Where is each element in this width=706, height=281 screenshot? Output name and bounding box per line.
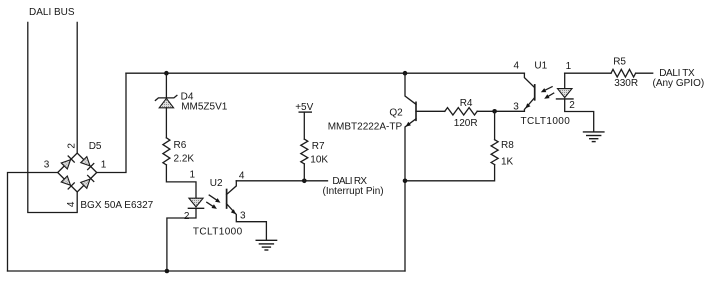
- wire: Q2 base to R4: [416, 110, 445, 112]
- wire: R6 to U2 LED anode: [166, 165, 196, 198]
- wire: bridge pin 1 up to top rail: [97, 73, 126, 172]
- resistor R8: [405, 111, 498, 181]
- resistor R7: [301, 139, 308, 164]
- junction dot R7 / DALI RX: [302, 179, 307, 184]
- wire: U1 pin 1 to R5: [565, 72, 611, 74]
- svg-text:Q2: Q2: [389, 108, 403, 119]
- svg-text:+5V: +5V: [295, 102, 313, 113]
- junction dot on ground rail at U2 cathode branch: [165, 269, 170, 274]
- transistor Q2: [405, 73, 416, 271]
- svg-text:1: 1: [566, 61, 572, 72]
- U2 emission arrow 1: [209, 195, 220, 203]
- svg-text:120R: 120R: [454, 118, 478, 129]
- svg-text:U2: U2: [210, 178, 223, 189]
- svg-text:1: 1: [190, 170, 196, 181]
- svg-text:TCLT1000: TCLT1000: [521, 116, 571, 127]
- diode D5 upper-left (pin3 to pin2): [61, 156, 74, 169]
- optocoupler U2 LED: [188, 198, 203, 208]
- svg-text:R5: R5: [613, 57, 626, 68]
- diode D5 upper-right (pin2 to pin1): [81, 157, 94, 170]
- svg-text:4: 4: [514, 60, 520, 71]
- wire: R7 to DALI RX node: [303, 164, 305, 181]
- svg-text:MMBT2222A-TP: MMBT2222A-TP: [328, 121, 403, 132]
- wire: U2 LED cathode down to ground rail: [167, 208, 196, 271]
- junction dot Q2 emitter / R8: [403, 179, 408, 184]
- zener diode D4: [155, 73, 177, 138]
- U2 emission arrow 2: [207, 202, 217, 209]
- wire: +5V to R7: [303, 112, 305, 139]
- wire: R5 to DALI TX: [636, 72, 653, 74]
- svg-text:2.2K: 2.2K: [174, 154, 195, 165]
- resistor R4: [445, 108, 477, 115]
- optocoupler U1 phototransistor: [524, 73, 534, 111]
- junction dot Q2 collector on top rail: [403, 71, 408, 76]
- resistor R5: [611, 69, 636, 77]
- svg-text:R7: R7: [312, 141, 325, 152]
- svg-text:R8: R8: [501, 140, 514, 151]
- svg-text:1K: 1K: [501, 156, 514, 167]
- wire: U2 collector to DALI RX node: [236, 180, 327, 182]
- U1 emission arrow 1: [541, 87, 552, 93]
- wire: bottom ground rail: [8, 270, 406, 272]
- diode D5 lower-left (pin3 to pin4): [61, 176, 74, 189]
- optocoupler U2 phototransistor: [227, 181, 267, 241]
- svg-text:2: 2: [67, 143, 78, 149]
- svg-text:1: 1: [101, 160, 107, 171]
- junction dot R4 / R8 / U1 pin 3: [492, 109, 497, 114]
- svg-text:3: 3: [240, 211, 246, 222]
- wire: top supply rail: [126, 72, 524, 74]
- U1 emission arrow 2: [544, 93, 554, 99]
- svg-text:4: 4: [66, 201, 77, 207]
- ground symbol at U1 LED cathode: [584, 132, 604, 142]
- svg-text:D5: D5: [89, 141, 102, 152]
- ground symbol at U2 emitter: [256, 240, 276, 250]
- svg-text:R4: R4: [460, 98, 473, 109]
- svg-text:3: 3: [513, 101, 519, 112]
- svg-text:2: 2: [569, 100, 575, 111]
- svg-text:MM5Z5V1: MM5Z5V1: [181, 101, 228, 112]
- svg-text:(Any GPIO): (Any GPIO): [653, 78, 705, 89]
- wire: left DALI bus line down to bridge pin 4: [28, 22, 77, 212]
- svg-text:4: 4: [239, 170, 245, 181]
- wire: right DALI bus line down to bridge pin 2: [76, 22, 78, 153]
- svg-text:2: 2: [184, 211, 190, 222]
- resistor R6: [163, 138, 170, 165]
- svg-text:TCLT1000: TCLT1000: [193, 226, 243, 237]
- wire: R4 to junction: [477, 110, 524, 112]
- optocoupler U1 LED: [557, 73, 594, 132]
- junction dot at D4 branch on top rail: [164, 71, 169, 76]
- svg-text:DALI BUS: DALI BUS: [29, 7, 75, 18]
- svg-text:330R: 330R: [614, 78, 638, 89]
- svg-text:R6: R6: [174, 140, 187, 151]
- svg-text:BGX 50A E6327: BGX 50A E6327: [80, 200, 153, 211]
- svg-text:(Interrupt Pin): (Interrupt Pin): [323, 186, 384, 197]
- svg-text:U1: U1: [534, 60, 547, 71]
- diode D5 lower-right (pin4 to pin1): [81, 175, 94, 188]
- svg-text:10K: 10K: [310, 155, 328, 166]
- bridge rectifier D5 diamond outline: [58, 153, 97, 192]
- svg-text:3: 3: [44, 160, 50, 171]
- wire: bridge pin 3 to ground rail: [8, 173, 58, 272]
